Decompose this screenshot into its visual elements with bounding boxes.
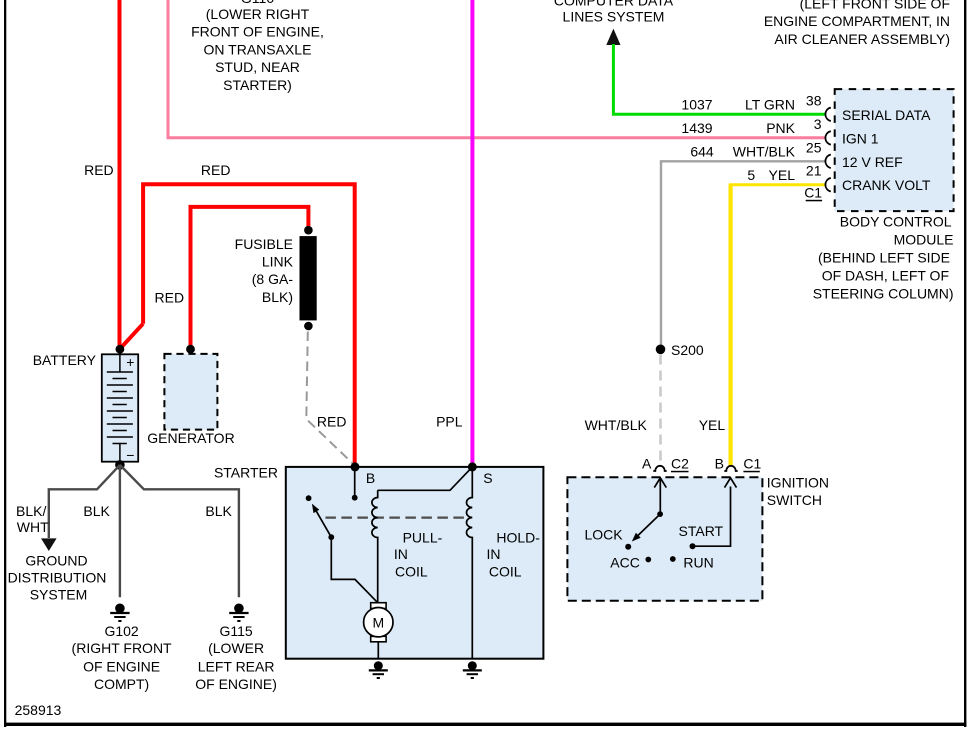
wire PPL vertical to starter S terminal xyxy=(470,0,474,466)
svg-text:1439: 1439 xyxy=(681,120,712,136)
svg-text:G115: G115 xyxy=(219,623,252,639)
svg-text:DISTRIBUTION: DISTRIBUTION xyxy=(8,570,107,586)
svg-text:COIL: COIL xyxy=(489,563,522,579)
svg-text:LT GRN: LT GRN xyxy=(745,97,795,113)
svg-text:WHT/BLK: WHT/BLK xyxy=(733,144,796,160)
svg-text:B: B xyxy=(715,455,724,471)
svg-text:RED: RED xyxy=(155,290,185,306)
svg-text:G102: G102 xyxy=(104,623,138,639)
svg-text:(LEFT FRONT SIDE OF: (LEFT FRONT SIDE OF xyxy=(800,0,950,11)
ignition switch box xyxy=(567,477,762,600)
fusible link bottom junction dot xyxy=(304,322,313,331)
svg-text:CRANK VOLT: CRANK VOLT xyxy=(842,177,931,193)
wire PNK circuit 1439 (G110 box edge + horizontal to BCM IGN 1) xyxy=(168,0,826,138)
svg-text:(LOWER: (LOWER xyxy=(208,640,264,656)
ACC position dot xyxy=(645,557,651,563)
arrow to computer data lines xyxy=(606,29,620,45)
dashed lead from fusible link to starter B xyxy=(306,332,353,465)
ground G102 xyxy=(110,604,129,622)
battery internal plates xyxy=(107,349,133,464)
svg-text:RUN: RUN xyxy=(683,555,713,571)
wire LT GRN circuit 1037 xyxy=(613,44,825,114)
S terminal to pull-in coil lead xyxy=(378,467,473,490)
BCM pin row labels xyxy=(681,92,822,200)
svg-text:PULL-: PULL- xyxy=(403,530,443,546)
svg-text:RED: RED xyxy=(84,162,114,178)
svg-text:3: 3 xyxy=(814,116,822,132)
wire WHT/BLK dashed to ignition switch pin A xyxy=(659,355,662,465)
svg-text:OF DASH, LEFT OF: OF DASH, LEFT OF xyxy=(822,268,949,284)
hold-in coil xyxy=(467,467,473,659)
svg-text:GROUND: GROUND xyxy=(25,553,87,569)
svg-text:SERIAL DATA: SERIAL DATA xyxy=(842,107,931,123)
generator box xyxy=(164,354,217,430)
svg-text:RED: RED xyxy=(317,414,347,430)
ignition switch pin A arc xyxy=(653,466,666,471)
svg-text:FUSIBLE: FUSIBLE xyxy=(235,236,293,252)
svg-text:ACC: ACC xyxy=(610,555,640,571)
svg-text:−: − xyxy=(126,447,134,463)
starter motor M xyxy=(364,608,393,637)
fusible link body xyxy=(300,236,317,320)
connector C1 underline at BCM xyxy=(806,200,822,202)
PCM location label (top right) xyxy=(764,0,950,47)
svg-text:LOCK: LOCK xyxy=(585,526,624,542)
ground wires from battery - xyxy=(49,465,239,597)
rotor lever to LOCK with arrowhead xyxy=(637,514,660,536)
BCM pin arcs xyxy=(825,108,830,192)
svg-text:LEFT REAR: LEFT REAR xyxy=(198,658,275,674)
diagram frame bottom border xyxy=(4,723,966,726)
svg-text:S: S xyxy=(483,470,492,486)
svg-text:B: B xyxy=(366,470,375,486)
svg-text:BATTERY: BATTERY xyxy=(33,352,97,368)
svg-text:MODULE: MODULE xyxy=(894,232,954,248)
svg-text:IGN 1: IGN 1 xyxy=(842,130,879,146)
svg-text:ON TRANSAXLE: ON TRANSAXLE xyxy=(204,41,312,57)
svg-text:STUD, NEAR: STUD, NEAR xyxy=(215,59,300,75)
diagram frame left border xyxy=(4,0,6,727)
svg-text:(8 GA-: (8 GA- xyxy=(252,271,294,287)
svg-text:OF ENGINE: OF ENGINE xyxy=(83,658,160,674)
svg-text:STARTER: STARTER xyxy=(214,465,278,481)
wire WHT/BLK circuit 644 (solid part) xyxy=(661,161,826,348)
ground G115 xyxy=(229,604,248,622)
svg-text:(BEHIND LEFT SIDE: (BEHIND LEFT SIDE xyxy=(818,250,950,266)
starter motor ground xyxy=(369,661,388,678)
svg-text:WHT/BLK: WHT/BLK xyxy=(585,417,648,433)
wire RED diagonal to battery + xyxy=(120,324,143,349)
svg-text:C1: C1 xyxy=(743,455,761,471)
svg-text:1037: 1037 xyxy=(681,97,712,113)
svg-text:GENERATOR: GENERATOR xyxy=(147,430,234,446)
svg-text:A: A xyxy=(642,455,652,471)
svg-text:21: 21 xyxy=(806,163,822,179)
svg-text:S200: S200 xyxy=(671,342,704,358)
pull-in coil xyxy=(372,490,378,602)
svg-text:IGNITION: IGNITION xyxy=(767,475,829,491)
solenoid pivot dot xyxy=(328,534,334,540)
starter box xyxy=(286,467,544,659)
B terminal stub and contact dot xyxy=(354,467,356,495)
svg-text:LINK: LINK xyxy=(262,253,294,269)
svg-text:IN: IN xyxy=(394,546,408,562)
lever linkage to motor xyxy=(331,537,377,603)
svg-text:C1: C1 xyxy=(804,184,822,200)
svg-text:HOLD-: HOLD- xyxy=(496,529,540,545)
splice S200 xyxy=(656,345,666,355)
svg-text:SWITCH: SWITCH xyxy=(767,492,822,508)
fusible link label xyxy=(235,236,294,305)
motor ground lead xyxy=(377,642,379,659)
svg-text:COMPUTER DATA: COMPUTER DATA xyxy=(554,0,674,8)
ground distribution system label xyxy=(8,553,107,603)
fusible link top junction dot xyxy=(304,226,313,235)
svg-text:BLK: BLK xyxy=(205,503,232,519)
node COMPUTER DATA LINES SYSTEM label xyxy=(554,0,674,25)
battery box xyxy=(102,354,138,461)
starter S terminal dot xyxy=(468,462,477,471)
svg-text:BLK): BLK) xyxy=(262,289,293,305)
generator terminal dot xyxy=(186,345,195,354)
svg-text:(RIGHT FRONT: (RIGHT FRONT xyxy=(72,640,173,656)
LOCK position dot xyxy=(625,544,631,550)
wire RED bus generator to fusible link xyxy=(191,207,309,348)
arrow to ground distribution system xyxy=(41,538,57,551)
ignition switch pin B arc xyxy=(724,466,737,471)
svg-text:AIR CLEANER ASSEMBLY): AIR CLEANER ASSEMBLY) xyxy=(774,31,950,47)
svg-text:COIL: COIL xyxy=(395,563,428,579)
svg-text:START: START xyxy=(679,523,724,539)
wire RED bus battery to starter B xyxy=(143,184,355,466)
svg-text:STARTER): STARTER) xyxy=(223,77,292,93)
wire RED from top to battery xyxy=(118,0,122,347)
svg-text:5: 5 xyxy=(747,167,755,183)
START position dot and wire to pin B xyxy=(690,543,696,549)
svg-text:644: 644 xyxy=(690,144,714,160)
mechanical link dashed line xyxy=(325,516,464,518)
solenoid contact dot (left) xyxy=(306,495,312,501)
rotor pivot dot xyxy=(657,511,663,517)
svg-text:WHT: WHT xyxy=(17,519,49,535)
svg-text:LINES SYSTEM: LINES SYSTEM xyxy=(563,9,665,25)
svg-text:SYSTEM: SYSTEM xyxy=(30,587,88,603)
svg-text:STEERING COLUMN): STEERING COLUMN) xyxy=(813,286,954,302)
svg-text:C2: C2 xyxy=(671,455,689,471)
svg-text:+: + xyxy=(126,354,134,370)
battery - terminal dot xyxy=(115,460,125,470)
svg-text:38: 38 xyxy=(806,92,822,108)
svg-text:PNK: PNK xyxy=(766,120,795,136)
svg-text:RED: RED xyxy=(201,162,231,178)
diagram frame right border xyxy=(964,0,966,727)
svg-text:BODY CONTROL: BODY CONTROL xyxy=(840,214,952,230)
svg-text:BLK/: BLK/ xyxy=(16,503,46,519)
svg-text:BLK: BLK xyxy=(83,503,110,519)
battery + terminal dot xyxy=(116,345,125,354)
RUN position dot xyxy=(670,556,676,562)
contact arrow to pin A xyxy=(654,478,666,514)
node G110 label block xyxy=(191,0,324,93)
svg-text:ENGINE COMPARTMENT, IN: ENGINE COMPARTMENT, IN xyxy=(764,13,950,29)
svg-text:COMPT): COMPT) xyxy=(94,676,149,692)
starter B terminal dot xyxy=(351,462,360,471)
wire YEL circuit 5 xyxy=(729,183,826,186)
hold-in coil ground xyxy=(463,661,482,678)
svg-text:OF ENGINE): OF ENGINE) xyxy=(195,676,277,692)
svg-text:YEL: YEL xyxy=(699,417,726,433)
svg-text:(LOWER RIGHT: (LOWER RIGHT xyxy=(206,6,310,22)
svg-text:25: 25 xyxy=(806,139,822,155)
svg-text:YEL: YEL xyxy=(769,167,796,183)
starter motor brushes xyxy=(371,603,386,609)
svg-text:IN: IN xyxy=(487,546,501,562)
BCM location label xyxy=(813,214,954,302)
svg-text:M: M xyxy=(372,614,384,630)
svg-text:FRONT OF ENGINE,: FRONT OF ENGINE, xyxy=(191,23,324,39)
svg-text:12 V REF: 12 V REF xyxy=(842,154,903,170)
solenoid plunger lever with arrowhead xyxy=(315,509,332,538)
svg-text:258913: 258913 xyxy=(15,702,62,718)
body control module box xyxy=(835,89,954,211)
svg-text:PPL: PPL xyxy=(436,414,463,430)
